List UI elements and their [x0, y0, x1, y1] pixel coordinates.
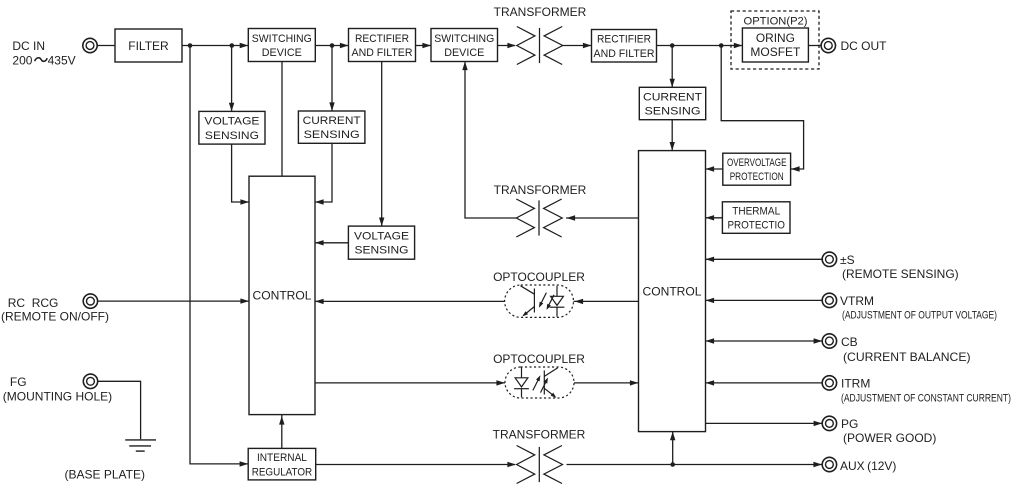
ORing mosfet block [742, 28, 808, 62]
terminal FG [83, 374, 97, 388]
optocoupler 2 [505, 367, 574, 398]
wire node A down to internal regulator [190, 46, 248, 467]
transformer T3 [517, 446, 563, 484]
wire thermal protection to control 2 [706, 215, 723, 220]
svg-text:CONTROL: CONTROL [253, 289, 312, 303]
label CB (CURRENT BALANCE) [841, 335, 971, 364]
svg-text:(ADJUSTMENT OF OUTPUT VOLTAGE): (ADJUSTMENT OF OUTPUT VOLTAGE) [842, 310, 997, 322]
wire node C down to current sensing 1 [329, 46, 334, 112]
svg-text:VOLTAGE: VOLTAGE [354, 231, 409, 243]
svg-text:THERMAL: THERMAL [732, 205, 780, 217]
wire transformer T2 to switching device 2 [462, 62, 516, 219]
svg-text:TRANSFORMER: TRANSFORMER [494, 5, 587, 19]
transformer T2 [516, 199, 562, 237]
svg-text:CONTROL: CONTROL [643, 284, 702, 298]
terminal CB [822, 334, 836, 348]
svg-text:INTERNAL: INTERNAL [257, 452, 307, 464]
svg-text:AND FILTER: AND FILTER [352, 47, 413, 59]
svg-text:PROTECTIO: PROTECTIO [727, 220, 785, 232]
svg-text:OPTOCOUPLER: OPTOCOUPLER [493, 270, 585, 284]
label transformer T3 [493, 427, 586, 441]
terminal plus-minus S [822, 252, 836, 266]
wire node E to overvoltage protection [721, 46, 803, 172]
wire control 1 to optocoupler 2 [315, 380, 505, 385]
wire node F up to control 2 [670, 432, 675, 465]
svg-text:200: 200 [12, 53, 32, 67]
switching device 2 [431, 29, 498, 62]
wire internal regulator to transformer T3 [316, 462, 516, 467]
label transformer T2 [494, 183, 587, 197]
control block 2 [639, 151, 706, 432]
wire voltage sensing 1 to control 1 [232, 144, 249, 205]
dashed option box OPTION(P2) [731, 11, 819, 69]
svg-text:(POWER GOOD): (POWER GOOD) [843, 431, 936, 445]
current sensing 1 [298, 111, 365, 143]
terminal ITRM [822, 376, 836, 390]
wire rectifier 2 to ORing mosfet [657, 43, 743, 48]
control block 1 [249, 176, 315, 414]
terminal DC IN [83, 38, 97, 52]
svg-text:(REMOTE ON/OFF): (REMOTE ON/OFF) [1, 309, 109, 323]
wire rectifier 1 down to voltage sensing 2 [379, 62, 384, 227]
wire FG to base plate ground [98, 381, 141, 439]
svg-text:OPTOCOUPLER: OPTOCOUPLER [493, 352, 585, 366]
wire VTRM to control 2 [706, 298, 823, 303]
switching device 1 [248, 29, 315, 62]
wire DC IN to filter [97, 45, 115, 47]
wire RC RCG to control 1 [98, 298, 250, 303]
svg-text:OVERVOLTAGE: OVERVOLTAGE [727, 157, 787, 169]
svg-text:CURRENT: CURRENT [643, 91, 702, 103]
svg-text:RECTIFIER: RECTIFIER [597, 34, 651, 46]
voltage sensing 1 [199, 111, 265, 144]
wire control 2 to transformer T2 [566, 215, 639, 220]
svg-text:OPTION(P2): OPTION(P2) [744, 15, 808, 27]
wire filter to switching device 1 [182, 43, 248, 48]
svg-text:SENSING: SENSING [205, 130, 259, 142]
wire switching device 1 to control 1 [281, 62, 283, 177]
svg-text:ITRM: ITRM [841, 377, 870, 391]
terminal PG [822, 416, 836, 430]
label VTRM (ADJUSTMENT OF OUTPUT VOLTAGE) [840, 294, 997, 322]
thermal protection [722, 202, 790, 234]
svg-text:DC OUT: DC OUT [841, 39, 888, 53]
svg-text:±S: ±S [840, 253, 855, 267]
svg-text:(BASE PLATE): (BASE PLATE) [65, 468, 145, 482]
svg-text:SENSING: SENSING [645, 106, 701, 118]
ground base plate [125, 440, 156, 451]
wire node B down to voltage sensing 1 [229, 46, 234, 112]
wire plus-minus S to control 2 [706, 257, 823, 262]
svg-text:VOLTAGE: VOLTAGE [204, 116, 259, 128]
label FG (MOUNTING HOLE) [3, 375, 112, 403]
wire overvoltage protection to control 2 [706, 166, 723, 171]
svg-text:CB: CB [841, 335, 858, 349]
svg-text:DEVICE: DEVICE [262, 47, 302, 59]
filter block [115, 29, 182, 62]
svg-text:RECTIFIER: RECTIFIER [355, 33, 409, 45]
wire rectifier 1 to switching device 2 [416, 43, 432, 48]
wire switching device 1 to rectifier 1 [315, 43, 348, 48]
label AUX (12V) [840, 459, 896, 473]
label transformer T1 [494, 5, 587, 19]
svg-text:MOSFET: MOSFET [750, 47, 800, 59]
rectifier and filter 2 [592, 30, 657, 63]
svg-text:SWITCHING: SWITCHING [252, 33, 312, 45]
label RC RCG (REMOTE ON/OFF) [1, 296, 109, 323]
svg-text:(CURRENT BALANCE): (CURRENT BALANCE) [843, 350, 971, 364]
terminal VTRM [822, 293, 836, 307]
svg-text:CURRENT: CURRENT [303, 115, 361, 127]
wire node D down to current sensing 2 [670, 46, 675, 88]
transformer T1 [517, 27, 563, 65]
svg-text:ORING: ORING [756, 33, 795, 45]
wire optocoupler 1 to control 1 [315, 299, 505, 304]
terminal RC RCG [83, 294, 97, 308]
current sensing 2 [639, 87, 705, 119]
overvoltage protection [723, 153, 791, 185]
svg-text:435V: 435V [48, 53, 76, 67]
wire optocoupler 2 to control 2 [574, 380, 639, 385]
wire current sensing 2 to control 2 [670, 120, 675, 151]
svg-text:PG: PG [841, 417, 858, 431]
label plus-minus S (REMOTE SENSING) [840, 253, 959, 281]
internal regulator [248, 448, 316, 480]
svg-text:DEVICE: DEVICE [444, 47, 484, 59]
label PG (POWER GOOD) [841, 417, 936, 445]
svg-text:SENSING: SENSING [304, 129, 360, 141]
label ITRM (ADJUSTMENT OF CONSTANT CURRENT) [841, 377, 1011, 405]
wire transformer T3 to AUX terminal [567, 462, 823, 467]
terminal AUX [822, 457, 836, 471]
wire control 2 to PG [706, 421, 823, 426]
wire control 2 to optocoupler 1 [574, 299, 639, 304]
svg-text:DC IN: DC IN [12, 39, 45, 53]
svg-text:TRANSFORMER: TRANSFORMER [494, 183, 587, 197]
wire transformer T1 to rectifier 2 [563, 43, 592, 48]
wire CB to control 2 bidirectional [706, 338, 823, 343]
label optocoupler 1 [493, 270, 585, 284]
label (BASE PLATE) [65, 468, 145, 482]
svg-text:VTRM: VTRM [840, 294, 874, 308]
label DC OUT [841, 39, 888, 53]
svg-text:AUX (12V): AUX (12V) [840, 459, 896, 473]
label DC IN 200~435V [12, 39, 75, 68]
svg-text:(REMOTE SENSING): (REMOTE SENSING) [842, 267, 959, 281]
svg-text:PROTECTION: PROTECTION [730, 171, 784, 183]
wire ORing mosfet to DC OUT [809, 45, 822, 47]
label optocoupler 2 [493, 352, 585, 366]
wire voltage sensing 2 to control 1 [315, 240, 348, 245]
svg-text:FG: FG [10, 375, 27, 389]
svg-text:FILTER: FILTER [128, 39, 169, 53]
optocoupler 1 [505, 285, 574, 317]
svg-text:(MOUNTING HOLE): (MOUNTING HOLE) [3, 389, 112, 403]
voltage sensing 2 [348, 226, 414, 259]
svg-text:REGULATOR: REGULATOR [252, 467, 313, 479]
svg-text:TRANSFORMER: TRANSFORMER [493, 427, 586, 441]
terminal DC OUT [821, 38, 835, 52]
wire switching device 2 to transformer T1 [498, 43, 517, 48]
rectifier and filter 1 [349, 29, 416, 62]
wire current sensing 1 to control 1 [315, 143, 332, 204]
svg-text:(ADJUSTMENT OF CONSTANT CURREN: (ADJUSTMENT OF CONSTANT CURRENT) [841, 393, 1011, 405]
wire ITRM to control 2 [706, 380, 823, 385]
svg-text:RC RCG: RC RCG [8, 296, 59, 310]
svg-text:SWITCHING: SWITCHING [434, 33, 494, 45]
wire internal regulator to control 1 [279, 414, 284, 448]
svg-text:AND FILTER: AND FILTER [594, 48, 655, 60]
svg-text:SENSING: SENSING [355, 245, 409, 257]
